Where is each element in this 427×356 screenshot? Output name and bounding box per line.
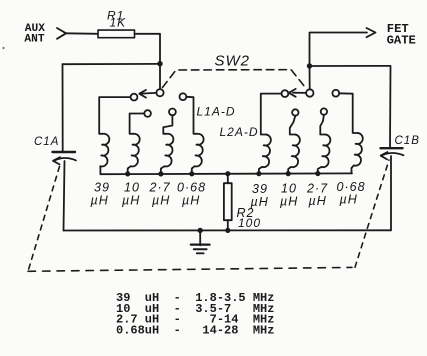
resistor R2: [227, 174, 229, 183]
svg-text:µH: µH: [340, 193, 358, 207]
node bus dot L1D: [189, 171, 194, 176]
switch SW2a contact 2: [144, 110, 151, 117]
node junction dot left: [157, 61, 162, 66]
svg-text:2·7: 2·7: [149, 181, 171, 195]
wire down to C1A: [62, 64, 64, 151]
wire C1A to bottom rail: [64, 161, 65, 231]
svg-text:L1A-D: L1A-D: [197, 105, 236, 119]
svg-text:GATE: GATE: [387, 34, 416, 48]
svg-text:SW2: SW2: [215, 53, 251, 70]
node bus dot L2A: [256, 171, 261, 176]
svg-text:10: 10: [124, 181, 140, 195]
inductor L1D 0.68uH with wire from contact 4: [186, 97, 203, 174]
svg-text:0.68uH - 14-28 MHz: 0.68uH - 14-28 MHz: [116, 323, 274, 337]
svg-text:µH: µH: [182, 194, 200, 208]
node junction dot right: [307, 63, 312, 68]
scan speck: [2, 47, 4, 49]
svg-text:L2A-D: L2A-D: [220, 125, 259, 139]
node bus dot L1B: [125, 171, 130, 176]
inductor L2B 10uH with wire from contact 2: [288, 116, 300, 174]
switch SW2a wiper arrow: [141, 92, 157, 95]
switch SW2a contact 4: [180, 93, 187, 100]
switch SW2b wiper arrow: [293, 92, 306, 94]
wire junction right up and to FET GATE arrow: [310, 33, 368, 67]
svg-text:C1B: C1B: [395, 135, 420, 147]
svg-text:1K: 1K: [110, 15, 127, 29]
switch SW2b contact 3: [321, 108, 327, 114]
svg-text:µH: µH: [309, 194, 327, 208]
svg-text:39: 39: [94, 181, 110, 195]
switch SW2a contact 3: [169, 109, 176, 116]
resistor R1: [98, 30, 135, 38]
svg-text:µH: µH: [152, 194, 170, 208]
wire junction right down to switch pole: [309, 66, 311, 89]
node bus dot L2C: [315, 171, 320, 176]
wire top-right junction to C1B: [310, 66, 391, 147]
svg-text:ANT: ANT: [24, 33, 44, 45]
inductor L2D 0.68uH with wire from contact 4: [339, 93, 363, 173]
svg-text:0·68: 0·68: [177, 181, 206, 195]
FET GATE output arrow: [367, 28, 376, 37]
switch SW2 gang dashed line: [163, 70, 306, 88]
wire AUX arrow to R1: [66, 32, 98, 35]
svg-text:100: 100: [238, 216, 261, 230]
AUX ANT input arrow: [57, 28, 66, 39]
wire R1 to top-left junction, down to switch pole: [135, 34, 161, 89]
switch SW2b contact 2: [292, 109, 298, 115]
capacitor C1 gang dashed line: [28, 167, 60, 272]
wire C1B to bottom rail: [390, 156, 392, 230]
switch SW2b pole: [306, 89, 313, 96]
ground: [198, 228, 203, 233]
wire bottom rail: [64, 229, 392, 231]
svg-text:µH: µH: [122, 194, 140, 208]
node bus dot L2B: [286, 171, 291, 176]
svg-text:10: 10: [281, 182, 297, 196]
svg-text:µH: µH: [91, 194, 109, 208]
wire inductor bus: [100, 172, 352, 175]
svg-text:µH: µH: [280, 195, 298, 209]
switch SW2a pole: [156, 89, 163, 96]
node bus dot R2: [225, 171, 230, 176]
inductor L1C 2.7uH with wire from contact 3: [161, 115, 173, 174]
inductor L2C 2.7uH with wire from contact 3: [318, 115, 331, 174]
inductor L2A 39uH with wire from contact 1: [259, 94, 282, 174]
inductor L1B 10uH with wire from contact 2: [128, 114, 145, 175]
switch SW2b contact 1: [282, 90, 289, 97]
node bus dot L1C: [158, 171, 163, 176]
switch SW2a contact 1: [131, 94, 138, 101]
svg-text:C1A: C1A: [34, 136, 59, 148]
wire junction left to C1A branch: [63, 63, 161, 65]
svg-text:39: 39: [252, 182, 268, 196]
switch SW2b contact 4: [332, 90, 339, 97]
inductor L1A 39uH with wire from contact 1: [99, 97, 130, 174]
